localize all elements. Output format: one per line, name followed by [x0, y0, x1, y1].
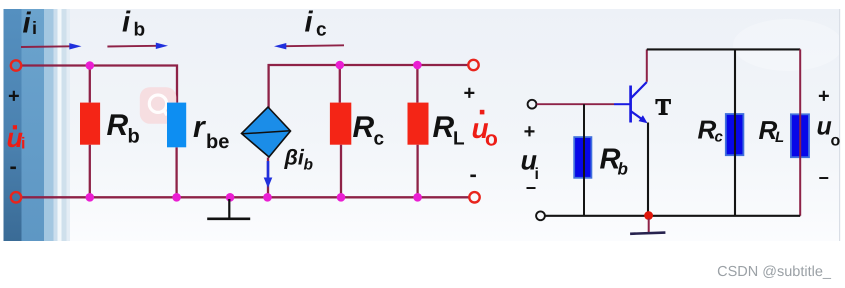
- svg-text:b: b: [618, 160, 628, 179]
- dot top Rb: [86, 61, 95, 70]
- svg-text:R: R: [353, 111, 375, 144]
- label RL: [433, 111, 466, 150]
- terminal input bottom (right circuit): [536, 211, 545, 220]
- dot top RL: [413, 61, 422, 70]
- svg-text:b: b: [134, 20, 146, 41]
- label Rb: [107, 109, 140, 148]
- resistor Rb: [80, 103, 100, 145]
- svg-text:c: c: [316, 20, 327, 41]
- resistor RL2: [791, 114, 809, 157]
- dot bottom Rb: [86, 193, 95, 202]
- wire Rc2 branch: [734, 49, 736, 215]
- wire Rc bottom branch: [340, 145, 342, 198]
- svg-text:o: o: [485, 127, 498, 150]
- terminal top-left: [11, 60, 21, 70]
- svg-text:L: L: [775, 129, 784, 146]
- svg-text:i: i: [122, 7, 131, 39]
- svg-text:b: b: [304, 157, 314, 174]
- label u_i right circuit: [521, 146, 539, 184]
- svg-text:T: T: [656, 95, 671, 120]
- ground left: [207, 199, 250, 219]
- junction red dot emitter: [644, 211, 653, 220]
- terminal input top (right circuit): [528, 100, 537, 109]
- wire output top rail: [269, 65, 468, 109]
- wire Rb top branch: [89, 66, 91, 103]
- wire top rail right circuit: [647, 48, 800, 50]
- svg-text:c: c: [715, 128, 724, 145]
- blue sidebar stripe 5: [58, 9, 62, 241]
- svg-text:-: -: [470, 162, 477, 187]
- resistor Rc2: [726, 114, 744, 155]
- svg-text:R: R: [433, 111, 455, 144]
- terminal top-right: [468, 60, 478, 70]
- label u_o dotted red: [472, 110, 498, 151]
- ground right stem: [648, 219, 650, 233]
- label RL2: [759, 115, 785, 146]
- svg-text:o: o: [831, 133, 841, 150]
- wire input top rail: [22, 66, 178, 103]
- arrow i_b: [107, 43, 168, 49]
- svg-text:i: i: [305, 7, 314, 39]
- resistor rbe: [167, 103, 186, 148]
- svg-text:R: R: [107, 109, 129, 142]
- label Rc2: [698, 115, 724, 146]
- svg-text:+: +: [464, 83, 476, 105]
- magnifier overlay icon: [140, 87, 177, 124]
- dot bottom rbe: [172, 193, 181, 202]
- svg-text:c: c: [374, 129, 385, 150]
- wire bottom rail right circuit: [545, 215, 800, 217]
- label Rb2: [600, 144, 628, 179]
- blue sidebar stripe 6: [62, 9, 67, 241]
- blue sidebar stripe 7: [67, 9, 71, 241]
- label u_o right circuit: [817, 113, 841, 150]
- svg-text:be: be: [206, 131, 229, 153]
- svg-text:CSDN @subtitle_: CSDN @subtitle_: [717, 264, 832, 280]
- blue sidebar stripe 1: [4, 9, 22, 241]
- svg-text:i: i: [21, 136, 25, 153]
- svg-text:i: i: [23, 8, 32, 40]
- terminal bottom-right: [469, 192, 479, 202]
- dot bottom source: [263, 193, 272, 202]
- svg-text:-: -: [10, 154, 17, 179]
- dot bottom Rc: [337, 193, 346, 202]
- label u_i dotted red: [7, 123, 26, 153]
- svg-text:−: −: [819, 168, 830, 188]
- source arrow beta ib: [264, 161, 273, 188]
- label Rc: [353, 111, 385, 150]
- wire RL2 branch: [799, 49, 801, 215]
- svg-text:−: −: [526, 178, 537, 198]
- wire source bottom branch: [267, 158, 269, 198]
- wire Rc top branch: [339, 65, 341, 103]
- wire bottom rail: [22, 196, 470, 198]
- wire base blue lead: [614, 103, 630, 105]
- svg-text:L: L: [453, 129, 465, 150]
- wire base maroon: [537, 103, 614, 105]
- wire rbe bottom branch: [175, 147, 177, 197]
- dot top Rc: [336, 61, 345, 70]
- blue sidebar stripe 2: [22, 9, 45, 241]
- label i_c: [305, 7, 328, 41]
- ground right bar: [630, 233, 665, 234]
- svg-text:+: +: [8, 86, 20, 108]
- resistor RL: [408, 103, 429, 145]
- wire RL top branch: [416, 65, 418, 103]
- faint slide right edge line: [839, 9, 841, 241]
- blue sidebar stripe 4: [54, 9, 58, 241]
- dependent source U1 diamond: [242, 107, 291, 157]
- resistor Rc: [330, 103, 351, 145]
- arrow i_i: [21, 43, 82, 49]
- label beta ib: [284, 146, 314, 174]
- blue sidebar stripe 3: [44, 9, 54, 241]
- transistor Q1 base bar: [629, 86, 632, 123]
- svg-text:u: u: [817, 113, 832, 141]
- svg-text:b: b: [128, 126, 140, 148]
- transistor Q1 collector lead: [631, 82, 647, 99]
- resistor Rb2: [574, 137, 591, 178]
- highlight cloud top right: [733, 19, 843, 71]
- label i_b: [122, 7, 145, 41]
- wire Rb bottom branch: [89, 145, 91, 198]
- transistor Q1 emitter lead: [631, 111, 648, 123]
- wire collector maroon: [646, 49, 648, 81]
- svg-text:+: +: [818, 86, 830, 108]
- wire Rb2 branch: [583, 104, 585, 216]
- arrow i_c: [274, 43, 344, 49]
- label i_i: [23, 8, 38, 40]
- svg-text:βi: βi: [284, 146, 305, 170]
- dot bottom RL: [413, 193, 422, 202]
- dot bottom ground: [226, 193, 235, 202]
- terminal bottom-left: [11, 192, 21, 202]
- slide background: [4, 9, 840, 241]
- wire RL bottom branch: [416, 145, 418, 198]
- svg-text:+: +: [524, 121, 536, 143]
- wire emitter: [647, 123, 649, 216]
- label rbe: [193, 111, 229, 153]
- svg-text:i: i: [32, 18, 37, 38]
